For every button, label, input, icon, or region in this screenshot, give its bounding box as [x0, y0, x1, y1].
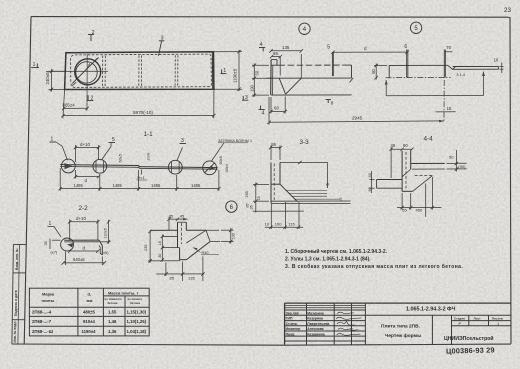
flange top right	[186, 229, 206, 231]
right dims 50 (90)	[447, 162, 467, 164]
role names column	[286, 311, 330, 336]
section mark 1 right	[221, 73, 227, 75]
right end bevel	[206, 230, 210, 241]
extension line below circle for 865 dim	[86, 54, 88, 110]
detail 5 step to thin flange	[448, 65, 456, 69]
flange profile	[271, 183, 280, 185]
flange rebar lines	[286, 189, 328, 191]
lip verticals	[177, 222, 179, 247]
strip divider rows	[13, 272, 26, 274]
detail 4 section mark 4 top	[259, 47, 265, 49]
detail 4 dim 65	[272, 56, 281, 58]
section mark 2 top	[88, 34, 94, 36]
lip verticals	[401, 151, 403, 192]
leader 3 on plan top	[159, 41, 162, 56]
dim d+10 top	[76, 146, 99, 148]
dim d lower	[76, 176, 99, 178]
detail 4 left lip	[271, 59, 277, 61]
anchor plate body	[64, 239, 99, 241]
haunch diagonals	[413, 176, 433, 192]
detail 5 (top right)	[267, 22, 503, 125]
title block horizontals	[285, 304, 366, 306]
detail 4 left dim chain 50 / 190	[252, 64, 269, 66]
left flange	[377, 179, 403, 181]
table outer border	[29, 288, 149, 336]
hole circle inner	[76, 62, 97, 83]
detail 5 left end	[388, 65, 390, 77]
tie bar body	[60, 164, 139, 167]
leader 1	[48, 227, 62, 237]
long bottom dim 2945	[269, 121, 444, 122]
section 2-2	[44, 205, 111, 265]
plan panel divider dashed pair 2	[138, 55, 140, 86]
dimension 865±4	[64, 107, 87, 109]
table header text	[42, 290, 139, 303]
bottom dim 640±5	[63, 262, 104, 264]
bolt circle 4	[203, 161, 217, 175]
right dim 100	[221, 229, 234, 231]
slab top face right	[411, 162, 445, 164]
section mark 3 bottom right	[242, 99, 248, 101]
flange bottom left	[162, 235, 177, 237]
detail 5 bar position 7 with dim 70	[443, 50, 445, 78]
top dims 85 45	[169, 218, 188, 220]
detail 4 (top right)	[249, 23, 353, 117]
detail 6 circle label	[226, 201, 237, 212]
section 1-1 (tie bar elevation)	[50, 131, 252, 191]
plan view of plate: outer outline	[31, 30, 248, 119]
plan inner dashed contour	[71, 54, 212, 87]
haunch diagonal	[187, 242, 211, 260]
detail 4 section mark 4 bottom	[259, 109, 265, 111]
rib verticals	[270, 163, 272, 204]
rib lower part	[179, 248, 181, 260]
hole diameter diagonal	[72, 58, 97, 83]
signature squiggles	[336, 312, 362, 335]
leader 5	[102, 147, 112, 161]
detail 6 (bottom middle)	[144, 201, 249, 281]
detail 5 bottom width dim with arrows	[386, 95, 483, 97]
top dim line to right	[280, 161, 328, 163]
anchor hook	[99, 240, 102, 255]
notes block	[285, 248, 463, 270]
flange top left	[150, 229, 177, 231]
detail 4 circle label	[299, 23, 310, 34]
section 4-4	[368, 136, 467, 217]
title block	[285, 303, 511, 345]
detail 5 flange thickness dim 10	[500, 65, 504, 67]
title text	[381, 324, 421, 340]
inner left dims 15 30	[161, 235, 163, 262]
left dim labels	[253, 183, 269, 185]
bottom dims 10 100 115	[253, 210, 304, 212]
table column lines	[77, 288, 79, 336]
leader 3	[177, 148, 183, 161]
detail 5 centreline	[386, 77, 451, 79]
plan panel divider dashed pair 1	[102, 56, 104, 87]
section mark 1 left	[31, 67, 39, 69]
detail 4 right end arrow	[350, 78, 354, 83]
dim d+10	[70, 221, 98, 223]
left dimension 240±5	[49, 70, 65, 72]
bottom dim chain 1495 x4	[60, 188, 219, 190]
left stamp strip	[12, 245, 27, 345]
dim d between bars 5 and 6	[333, 51, 407, 53]
detail 5 circle label	[410, 22, 421, 33]
rib bottom	[402, 190, 413, 192]
bolt circle 3	[168, 160, 182, 174]
leader 1	[62, 146, 67, 160]
bolt circle 2	[93, 159, 107, 173]
table data rows	[32, 310, 147, 334]
detail 4 dim 135	[271, 50, 301, 52]
bottom dims 85 135	[156, 273, 204, 275]
bottom dimension 5970(-10)	[63, 90, 65, 119]
strip rotated labels	[13, 248, 19, 342]
dim d below plate	[70, 250, 98, 252]
anchor circle	[61, 238, 74, 251]
detail 4 slab bottom face	[271, 94, 351, 96]
stage cells	[454, 316, 503, 320]
detail 4 weld triangle	[279, 78, 285, 94]
detail 5 left dim 80	[374, 64, 387, 66]
detail 5 top face	[389, 64, 448, 66]
strip outer lines	[12, 245, 14, 345]
title block verticals	[306, 303, 308, 345]
hole circle outer	[75, 59, 101, 85]
dim 95 top	[271, 147, 281, 149]
detail 4 dim 60 bottom	[270, 97, 272, 113]
left dim 235	[149, 230, 151, 262]
table header lines	[103, 295, 149, 297]
detail 4 slab mid line	[267, 77, 352, 79]
bottom dims 65 450	[397, 207, 441, 209]
dims 45 90 top	[391, 148, 412, 150]
step bottom left	[162, 247, 179, 249]
rib dashed rebar	[273, 164, 275, 201]
plan panel divider dashed pair 3	[174, 55, 176, 86]
right dimension 1190±5	[214, 51, 242, 53]
mark Tb under detail 4	[326, 99, 332, 101]
mass table	[29, 288, 149, 336]
flange bottom right	[210, 240, 220, 242]
section 3-3	[245, 139, 351, 229]
detail 5 thin flange top/bottom	[453, 65, 499, 67]
flange bottom slab	[271, 200, 351, 202]
bolt circle 1	[61, 159, 75, 173]
detail 4 slab top face	[271, 64, 278, 66]
dim 15 at bar 7	[443, 80, 445, 123]
detail 5 bar position 6	[406, 50, 408, 78]
detail 4 bar position 5	[331, 52, 333, 76]
title block outer	[285, 302, 511, 304]
detail 4 left end edge	[270, 60, 272, 96]
hole horizontal centreline	[46, 70, 108, 72]
right vertical dim 110±5	[108, 220, 110, 244]
left dims 40 90	[370, 179, 375, 181]
section mark 2 bottom	[87, 100, 94, 102]
